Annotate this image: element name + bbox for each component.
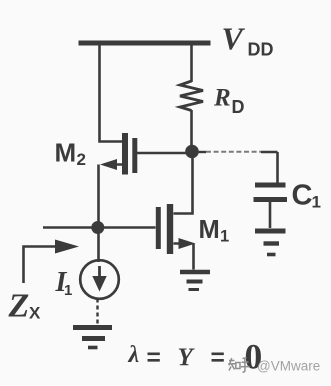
svg-text:1: 1 — [312, 193, 321, 212]
resistor RD zigzag — [180, 81, 203, 111]
capacitor C1 top plate — [255, 183, 286, 188]
svg-text:V: V — [222, 21, 246, 57]
wire: I1 to ground — [96, 299, 98, 325]
current source I1 circle — [80, 260, 119, 299]
svg-text:=: = — [147, 345, 161, 372]
svg-text:D: D — [232, 97, 245, 117]
svg-text:λ: λ — [128, 342, 140, 368]
ZX probe arrow — [24, 247, 59, 284]
svg-text:X: X — [29, 304, 41, 323]
transistor M2 gate bar — [132, 138, 137, 173]
wire: M2 source down to node X — [97, 165, 100, 263]
wire: down to C1 top plate — [276, 152, 279, 183]
M1 source stub with arrow (points right) — [174, 242, 191, 245]
wire: input stub and M1 gate wire — [43, 226, 156, 229]
svg-text:DD: DD — [248, 40, 274, 60]
watermark zhihu glyphs — [228, 358, 249, 373]
ground (below C1) — [255, 229, 286, 234]
node X junction dot — [91, 221, 104, 234]
M2 source stub with arrow (points left) — [104, 163, 123, 166]
transistor M1 gate bar — [156, 207, 161, 249]
svg-text:M: M — [199, 216, 220, 244]
transistor M1 channel bar — [167, 204, 173, 254]
wire: M2 gate to drain node — [137, 152, 192, 155]
transistor M2 channel bar — [122, 133, 128, 175]
svg-text:1: 1 — [64, 282, 72, 299]
svg-text:2: 2 — [77, 150, 86, 169]
svg-text:1: 1 — [220, 228, 229, 246]
wire: M1 source down to ground — [192, 244, 195, 270]
capacitor C1 bottom plate — [254, 197, 288, 202]
ground (below I1) — [73, 325, 112, 330]
wire: VDD rail to resistor RD — [190, 45, 193, 82]
svg-text:Υ: Υ — [178, 344, 196, 371]
drain node junction dot — [185, 145, 199, 159]
svg-text:@VMware: @VMware — [257, 359, 320, 374]
wire: C1 to ground — [269, 202, 272, 228]
svg-text:=: = — [211, 345, 225, 372]
svg-text:Z: Z — [8, 288, 30, 325]
svg-text:M: M — [55, 138, 77, 168]
wire: drain node to C1 (horizontal) — [192, 151, 206, 153]
ground (below M1) — [180, 270, 210, 275]
VDD rail — [79, 41, 211, 46]
wire: resistor RD to drain node — [190, 110, 193, 152]
svg-text:C: C — [292, 180, 313, 212]
svg-text:R: R — [213, 85, 231, 112]
current source I1 arrow (downward) — [98, 266, 101, 278]
wire: VDD rail to M2 drain (left vertical) — [100, 45, 124, 142]
wire: drain node down to M1 drain — [174, 152, 193, 214]
